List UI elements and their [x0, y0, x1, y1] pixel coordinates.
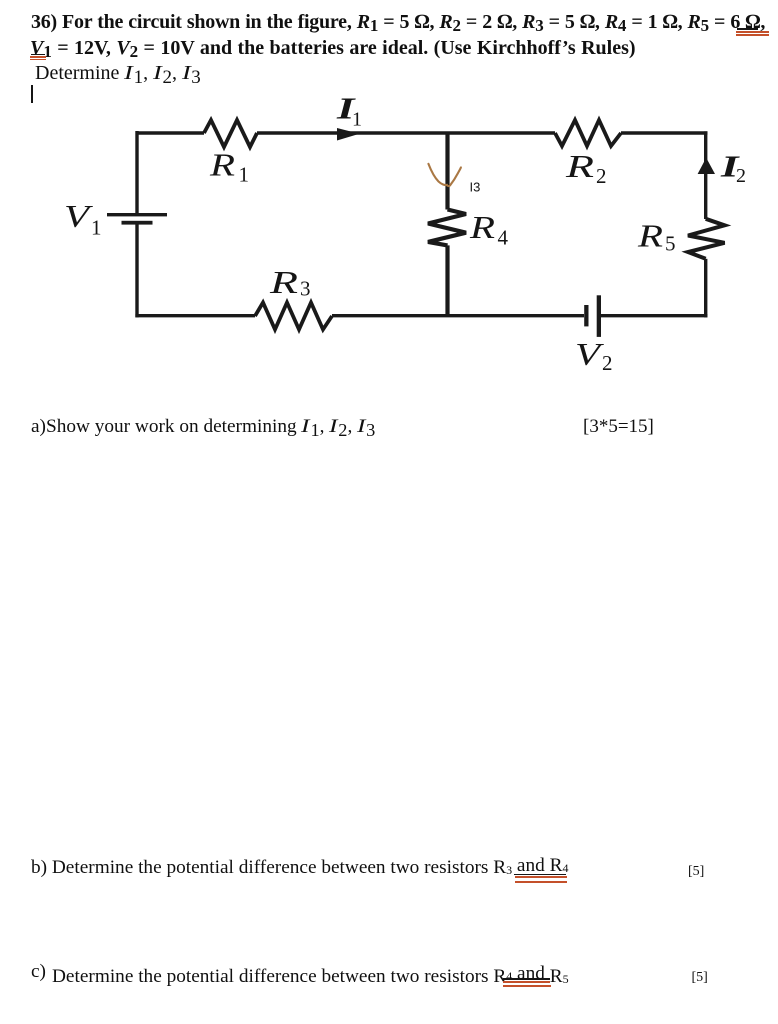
svg-text:2: 2	[596, 164, 607, 188]
svg-text:R: R	[565, 148, 595, 184]
wire bottom-left to R3	[135, 314, 255, 317]
wire right vertical upper (corner to R5)	[704, 131, 707, 219]
resistor R3	[255, 303, 332, 330]
wire left vertical upper (node A to battery V1)	[135, 131, 138, 213]
svg-text:1: 1	[91, 216, 102, 240]
svg-text:1: 1	[352, 109, 362, 131]
wire R2 to top-right corner	[621, 131, 708, 134]
black underline under V1 line2	[31, 54, 45, 56]
wire top-left segment (node A to R1)	[137, 131, 204, 134]
resistor R1	[204, 120, 257, 147]
wire V2 to bottom-right corner	[601, 314, 707, 317]
resistor R4	[428, 210, 466, 246]
wire left vertical lower (V1 to bottom-left corner)	[135, 224, 138, 317]
wire R5 to bottom-right corner	[704, 259, 707, 318]
battery V1 plates	[107, 213, 167, 225]
svg-text:V: V	[64, 198, 93, 234]
svg-text:2: 2	[602, 351, 613, 375]
wire R3 to node C (bottom middle)	[332, 314, 447, 317]
heading line 2	[30, 37, 636, 60]
wire node C to battery V2	[447, 314, 584, 317]
wire R1 to node B (top middle)	[257, 131, 447, 134]
red double underline under V1	[30, 56, 46, 58]
svg-text:5: 5	[665, 232, 676, 256]
black underline under Omega line1	[737, 28, 758, 29]
svg-text:3: 3	[300, 277, 311, 301]
svg-text:V: V	[575, 336, 604, 372]
resistor R5	[688, 219, 725, 259]
svg-text:R: R	[209, 147, 236, 183]
current arrow I2 head	[698, 158, 715, 174]
heading line 1	[31, 11, 765, 34]
svg-text:2: 2	[736, 165, 746, 187]
question c line	[31, 961, 46, 983]
wire node B to R2	[447, 131, 555, 134]
question b line	[31, 857, 568, 879]
svg-text:I3: I3	[470, 180, 481, 195]
heading line 3	[35, 62, 201, 85]
resistor R2	[555, 120, 621, 146]
svg-text:R: R	[469, 209, 496, 245]
wire R4 to node C	[445, 245, 449, 316]
text cursor	[31, 85, 33, 103]
svg-text:R: R	[637, 218, 664, 254]
wire middle vertical upper (node B to I3 region)	[445, 133, 449, 210]
svg-text:4: 4	[498, 226, 509, 250]
question a line	[31, 416, 375, 438]
battery V2 plates	[584, 295, 601, 337]
red double underline end of line1	[736, 31, 769, 33]
svg-text:1: 1	[239, 163, 250, 187]
hand-drawn I3 arc (orange)	[428, 164, 461, 186]
svg-text:R: R	[269, 264, 299, 300]
current arrow I1 head	[337, 128, 360, 141]
